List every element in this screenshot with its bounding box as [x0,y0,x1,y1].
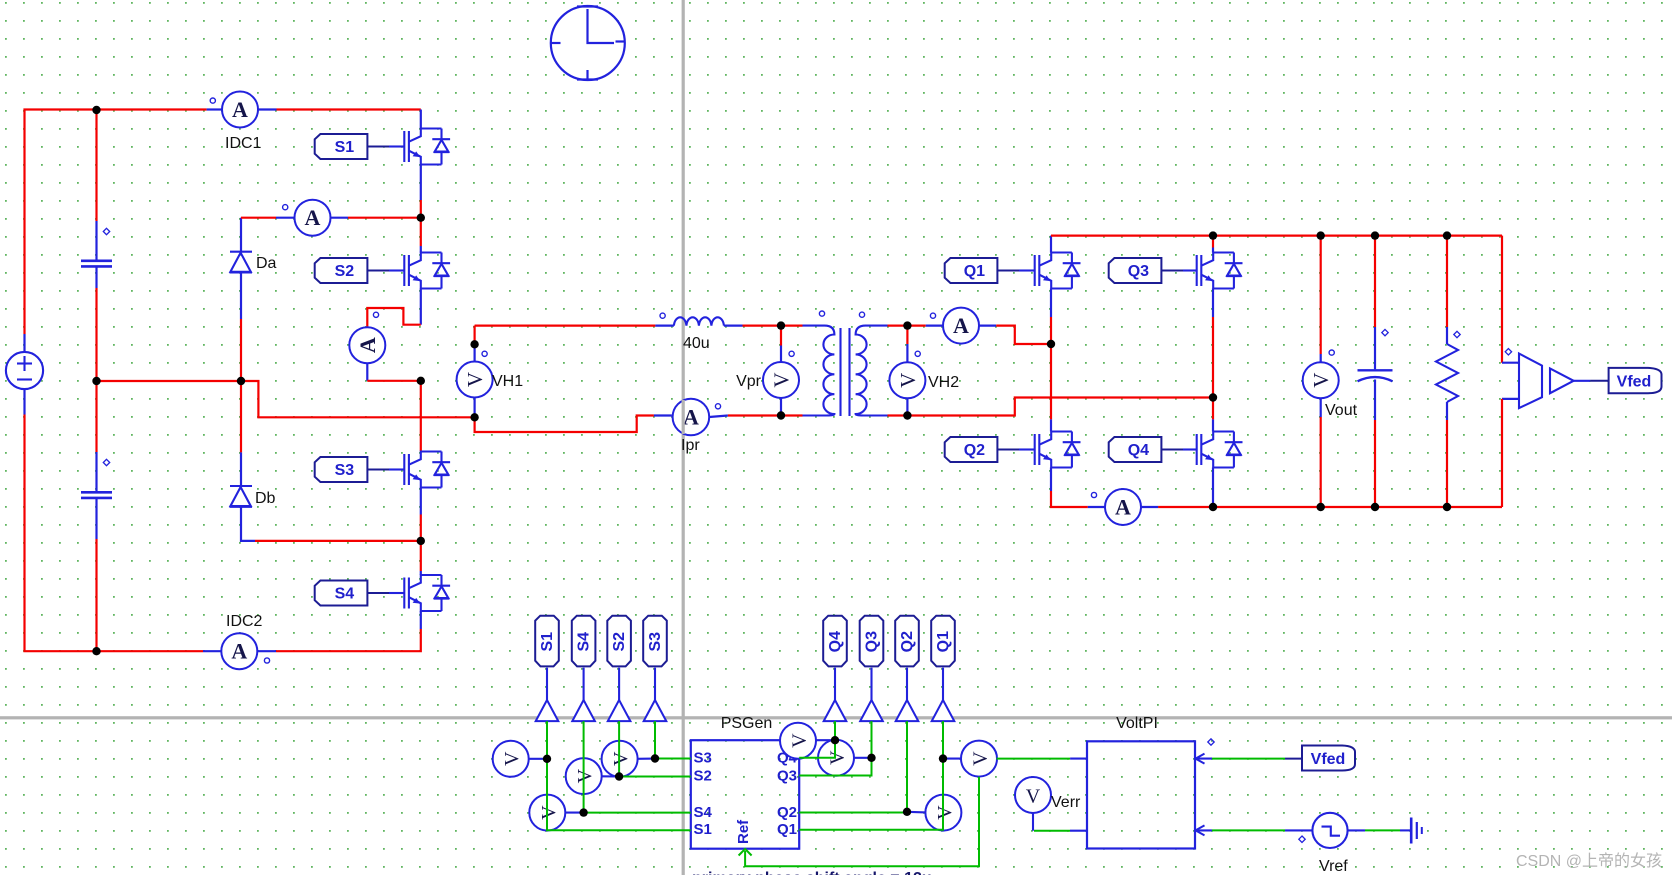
wire Rload bottom lead [1446,420,1448,507]
svg-text:Q3: Q3 [864,631,881,652]
wire Q2 emitter stub [1050,468,1052,492]
gating tag Q2 (control) [895,616,919,667]
junction [903,411,911,419]
voltmeter VH1 [457,362,493,398]
wire VH2 top stub [906,344,908,362]
ammeter A4 [943,308,979,344]
svg-text:S2: S2 [694,768,712,785]
wire VH2 bottom stub [906,399,908,416]
wire Q3 tag lead [870,668,872,700]
wire IDC1 right stub [258,108,277,110]
transformer T1 [803,326,888,416]
transistor S2 [404,253,450,289]
buffer S2 [608,700,631,721]
wire VoltPI lower stub [1070,830,1087,832]
svg-text:Vfed: Vfed [1617,374,1652,391]
inductor L1 40u [674,317,724,325]
wire S4 tag lead [583,668,585,700]
wire IDC2 left stub [203,650,222,652]
svg-text:Da: Da [256,255,277,272]
transistor S1 [404,129,450,165]
svg-text:V: V [538,805,560,820]
gating tag Q3 [1109,258,1162,283]
junction [1371,231,1379,239]
junction [831,736,839,744]
wire node to ammeter A2 [241,217,276,219]
voltmeter VH2 [889,362,925,398]
wire secondary top lead [888,325,908,327]
wire S2 tag lead [618,668,620,700]
wire S1 emitter stub [420,165,422,201]
DC source V1 [6,352,43,389]
wire A2 left stub [276,217,295,219]
ammeter A3 [349,327,385,363]
svg-text:Vout: Vout [1325,402,1358,419]
wire S4 emitter to DC- rail [276,629,421,651]
gating tag Q2 [945,437,998,462]
wire to transformer primary bottom [781,414,803,416]
source Vref [1312,813,1347,848]
wire A4 left stub [926,325,944,327]
wire Q1 emitter to midpoint [1050,317,1052,344]
wire Q3 gate signal [799,721,871,775]
wire VS2 stub [601,775,619,777]
Ref arrow [739,849,752,856]
wire VH1 top lead [474,326,476,345]
capacitor C1 [81,261,112,267]
svg-text:Verr: Verr [1051,794,1081,811]
block VoltPI U3 [1087,741,1195,848]
svg-text:S3: S3 [647,632,664,652]
wire S1 gate signal [547,721,691,830]
wire Db cathode lead [240,381,242,452]
wire L1 right stub [724,325,743,327]
svg-text:A: A [305,205,321,230]
wire S2 collector lead [420,218,422,246]
wire Q2 gate signal [799,721,907,812]
wire Q4 collector stub [1212,419,1214,431]
junction [92,647,100,655]
svg-text:40u: 40u [683,335,710,352]
ammeter Ipr [673,399,710,436]
capacitor Cout marker [1382,329,1388,335]
wire S4 collector stub [420,571,422,575]
wire cap2 bottom stub [95,499,97,539]
wire S3 gate lead [367,469,389,471]
wire VS3 stub [637,758,655,760]
wire S4 gate signal [584,721,691,813]
svg-text:S1: S1 [335,139,355,156]
transistor Q2 [1035,432,1081,468]
svg-text:V: V [501,751,523,766]
wire bridge output bottom [475,416,654,433]
wire VoltPI output stub [1070,758,1087,760]
wire Cout top stub [1374,327,1376,369]
transistor Q3 [1197,253,1243,289]
wire S1 gate stub [389,145,404,147]
wire S2 collector stub [420,246,422,253]
junction [903,321,911,329]
voltage probe VS3 [602,741,638,777]
wire Cout bottom stub [1374,380,1376,421]
wire ground stub [1400,829,1410,831]
signal tag Vfed (input) [1302,746,1355,771]
wire right rail bottom [1501,399,1503,507]
gating tag S4 [315,581,368,606]
wire VH2 top lead [906,326,908,344]
wire Vout bottom lead [1320,417,1322,507]
ammeter A2 [295,200,331,236]
voltage probe VQ1 [961,741,997,777]
wire cap1 to midpoint [95,288,97,381]
wire Db cathode stub [240,452,242,485]
gating tag S1 [315,134,368,159]
wire S1 gate lead [367,146,389,148]
wire VQ2 stub [907,811,926,814]
wire node B to S3 [420,381,422,452]
voltmeter Vout marker [1329,350,1334,355]
svg-text:S3: S3 [694,750,712,767]
svg-text:VH2: VH2 [928,374,959,391]
buffer Q2 [896,700,919,721]
junction [1209,231,1217,239]
wire source bottom stub [23,389,25,414]
junction [903,808,911,816]
buffer S1 [536,700,559,721]
svg-text:Vpr: Vpr [736,373,762,390]
page divider over Ipr [682,400,685,434]
svg-text:Ref: Ref [735,819,752,844]
wire Vref input stub [1195,829,1212,831]
capacitor C2 [81,492,112,498]
capacitor C2 marker [103,459,109,465]
wire midpoint to bridge output [241,381,475,417]
svg-text:V: V [463,372,487,387]
ammeter A2 marker [283,205,288,210]
gating tag S2 (control) [607,616,631,667]
buffer amp U2 [1550,369,1574,394]
voltage probe VS4 [529,795,565,831]
diode Db [230,486,253,507]
wire Q1 gate signal [799,721,943,830]
svg-text:Ipr: Ipr [681,437,700,454]
svg-text:A: A [1115,495,1131,520]
wire secondary bottom lead [888,414,908,416]
wire Vref to ground [1365,829,1400,831]
wire output top rail [1051,235,1502,237]
wire A2 right stub [330,217,348,219]
gating tag Q4 [1109,437,1162,462]
junction [417,537,425,545]
junction [1209,503,1217,511]
wire IDC1 left stub [207,108,222,110]
voltage probe VS2 [566,758,602,794]
wire midpoint to Q4 [1212,398,1214,420]
wire S2 emitter jog to A3 [367,308,421,328]
junction [1443,503,1451,511]
wire Da anode to midpoint [240,319,242,381]
page divider horizontal [0,716,1672,719]
wire bridge output top [475,325,656,327]
svg-text:S2: S2 [611,632,628,652]
wire Q1 gate lead [997,270,1019,272]
wire Cout top lead [1374,236,1376,327]
wire Q4 tag lead [834,668,836,700]
wire L1 to primary node [743,325,782,327]
svg-text:primary phase shift angle = 12: primary phase shift angle = 12u [692,870,932,875]
wire Verr to VoltPI [1034,830,1070,832]
svg-text:V: V [770,372,794,387]
voltage sensor marker [1505,349,1511,355]
svg-text:Q2: Q2 [899,631,916,652]
svg-text:A: A [683,405,699,430]
wire IDC2 right stub [257,650,276,652]
ammeter A5 marker [1091,492,1096,497]
wire Rload top lead [1446,236,1448,327]
junction [92,377,100,385]
wire VQ1 stub [943,758,961,760]
wire Vout bottom stub [1320,399,1322,417]
svg-text:IDC2: IDC2 [226,613,263,630]
wire A5 right stub [1141,506,1159,508]
transformer primary polarity dot [819,311,824,316]
svg-text:A: A [232,97,248,122]
wire Vfed input [1212,758,1285,760]
wire source top stub [23,334,25,352]
wire S2 gate stub [389,269,404,271]
VoltPI input arrow 1 [1196,754,1205,764]
wire A3 to node B [367,380,421,382]
voltmeter Vpr marker [789,351,794,356]
voltmeter VH1 marker [482,351,487,356]
wire S3 gate stub [389,468,404,470]
wire sensor + stub [1502,362,1519,364]
transistor S4 [404,575,450,611]
buffer S4 [572,700,595,721]
wire DC- rail [25,415,204,652]
junction [1317,231,1325,239]
wire Ipr right stub [709,416,728,418]
wire A5 left stub [1088,506,1106,508]
svg-text:A: A [355,337,380,353]
wire Q2 gate lead [997,449,1019,451]
ammeter A3 marker [373,312,378,317]
wire Vfed input stub [1195,758,1212,760]
wire feedback to VoltPI [997,758,1071,760]
wire Vpr top stub [780,346,782,363]
voltage probe Verr [1015,777,1051,813]
wire Verr lead [1032,813,1034,831]
wire A4 right stub [979,325,997,327]
ammeter IDC1 [222,92,258,128]
wire midpoint to Q2 [1050,344,1052,419]
inductor L1 marker [660,313,665,318]
svg-text:Q3: Q3 [1128,263,1149,280]
wire DC+ rail [25,110,207,335]
gating tag Q4 (control) [823,616,847,667]
wire VQ3 stub [854,757,872,759]
junction [1317,503,1325,511]
wire Db anode stub [241,507,255,541]
wire Vpr bottom stub [780,398,782,416]
svg-text:S4: S4 [576,632,593,652]
svg-text:S1: S1 [539,632,556,652]
wire Rload bottom stub [1446,402,1448,420]
gating tag Q1 [945,258,998,283]
wire S2 gate lead [367,270,389,272]
wire S3 gate signal [655,721,691,758]
wire to S1 collector [277,108,421,110]
wire A2 to node A [348,217,421,219]
wire Vref input [1212,829,1285,831]
wire Q3 emitter to midpoint [1212,317,1214,398]
svg-text:V: V [1309,373,1333,388]
junction [417,214,425,222]
wire cap2 to DC- rail [95,539,97,651]
wire Vfed tag lead [1285,758,1302,760]
wire Q3 collector stub [1212,248,1214,253]
svg-text:A: A [953,313,969,338]
svg-text:S4: S4 [694,804,713,821]
wire cap1 stub [95,221,97,260]
svg-text:VH1: VH1 [492,373,523,390]
wire Vout top lead [1320,236,1322,354]
wire Q3 gate stub [1183,269,1197,271]
capacitor Cout [1358,370,1393,381]
wire VS4 stub [565,812,584,814]
wire Vref to ground stub [1348,829,1365,831]
svg-text:Q3: Q3 [777,768,797,785]
wire sensor - stub [1502,398,1519,400]
svg-text:A: A [231,639,247,664]
wire A5 to Q4 node [1158,506,1213,508]
wire Vref source lead [1285,829,1312,831]
buffer S3 [644,700,667,721]
wire Ref signal [745,777,979,867]
wire Q2 collector stub [1050,419,1052,431]
wire Ipr to primary node [728,414,781,416]
ground [1411,818,1422,844]
transistor S3 [404,452,450,488]
svg-text:V: V [610,751,632,766]
VoltPI input arrow 2 [1196,825,1205,835]
ammeter Ipr marker [715,404,720,409]
svg-text:Vfed: Vfed [1311,751,1346,768]
wire output bottom rail [1213,506,1502,508]
junction [939,754,947,762]
voltmeter VH2 marker [915,351,920,356]
wire node C to S4 [420,541,422,571]
wire S3 tag lead [654,668,656,700]
svg-text:S2: S2 [335,263,355,280]
wire Q3 gate lead [1161,270,1183,272]
junction [1047,340,1055,348]
wire Q2 gate stub [1019,448,1035,450]
transistor Q1 [1035,253,1081,289]
svg-text:S3: S3 [335,462,355,479]
junction [615,772,623,780]
wire Q4 emitter stub [1212,468,1214,505]
voltage probe VQ3 [818,740,854,776]
wire VQ4 stub [816,739,835,741]
junction [777,411,785,419]
svg-text:Q1: Q1 [964,263,985,280]
wire Q2 tag lead [906,668,908,700]
svg-text:CSDN @上帝的女孩: CSDN @上帝的女孩 [1516,851,1662,870]
junction [470,413,478,421]
source Vref marker [1299,836,1305,842]
svg-text:Q4: Q4 [1128,442,1149,459]
svg-text:V: V [574,768,596,783]
junction [777,321,785,329]
clock icon [550,6,625,81]
wire L1 left stub [655,325,674,327]
wire Da anode stub [240,273,242,319]
wire A3 bottom stub [366,363,368,381]
wire S3 emitter stub [420,488,422,515]
capacitor C1 marker [103,228,109,234]
wire S4 gate lead [367,592,389,594]
wire VH1 bottom stub [474,397,476,417]
svg-text:V: V [896,373,920,388]
junction [579,808,587,816]
junction [92,106,100,114]
gating tag S3 (control) [643,616,667,667]
Vfed input marker [1208,739,1214,745]
wire node to A4 [907,325,925,327]
transistor Q4 [1197,432,1243,468]
gating tag S2 [315,258,368,283]
voltage probe VS1 [493,741,529,777]
wire Vpr top lead [780,326,782,346]
junction [237,377,245,385]
gating tag S3 [315,457,368,482]
wire cap1 top [95,110,97,221]
voltmeter Vout [1303,362,1339,398]
wire Db to S3-S4 node [255,540,421,542]
wire Q2 emitter to output rail [1051,491,1088,507]
signal tag Vfed (output) [1609,368,1662,393]
wire to transformer primary top [781,325,803,327]
wire Q1 gate stub [1019,269,1035,271]
junction [1209,393,1217,401]
gating tag S1 (control) [535,616,559,667]
ammeter IDC1 marker [210,98,215,103]
wire S3 emitter to node C [420,515,422,541]
wire Q3 emitter stub [1212,289,1214,318]
svg-text:V: V [789,733,811,748]
wire S2 gate signal [619,721,691,776]
wire sensor output stub [1574,380,1591,382]
svg-text:S1: S1 [694,821,712,838]
junction [1443,231,1451,239]
voltmeter Vpr [763,362,799,398]
resistor Rload marker [1454,331,1460,337]
diode Da [230,252,253,273]
wire Q4 gate stub [1183,448,1197,450]
svg-text:PSGen: PSGen [721,715,773,732]
wire S4 gate stub [389,592,404,594]
svg-text:Q4: Q4 [827,631,844,652]
svg-text:Q1: Q1 [935,631,952,652]
wire S4 emitter stub [420,611,422,629]
wire S1 tag lead [546,668,548,700]
svg-text:Q2: Q2 [964,442,985,459]
svg-text:S4: S4 [335,586,355,603]
wire S1 emitter to node A [420,200,422,218]
svg-text:Vref: Vref [1319,858,1348,875]
page divider vertical [682,0,685,875]
